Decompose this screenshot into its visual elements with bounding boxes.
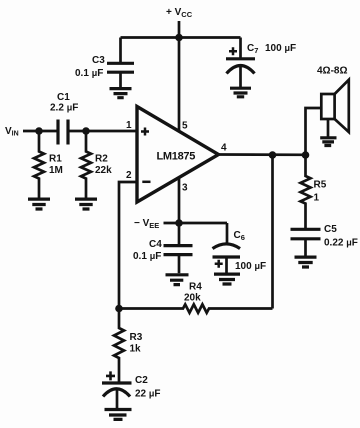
svg-text:R2: R2 [95, 154, 108, 165]
svg-text:5: 5 [182, 121, 188, 132]
svg-text:4Ω-8Ω: 4Ω-8Ω [317, 66, 348, 77]
svg-text:R1: R1 [49, 154, 62, 165]
svg-text:C4: C4 [149, 239, 162, 250]
svg-text:LM1875: LM1875 [157, 151, 196, 163]
svg-text:C3: C3 [92, 55, 105, 66]
svg-text:1: 1 [126, 120, 132, 131]
svg-text:3: 3 [182, 183, 188, 194]
svg-text:C1: C1 [57, 92, 70, 103]
svg-text:100 μF: 100 μF [235, 261, 266, 272]
svg-text:2: 2 [126, 170, 132, 181]
svg-text:22 μF: 22 μF [135, 389, 161, 400]
svg-text:0.1 μF: 0.1 μF [75, 68, 103, 79]
svg-text:C2: C2 [135, 375, 148, 386]
svg-text:22k: 22k [95, 165, 112, 176]
svg-text:C5: C5 [324, 224, 337, 235]
svg-text:0.1 μF: 0.1 μF [133, 251, 161, 262]
svg-text:0.22 μF: 0.22 μF [324, 238, 358, 249]
svg-text:2.2 μF: 2.2 μF [50, 103, 78, 114]
svg-text:4: 4 [221, 143, 227, 154]
svg-text:R5: R5 [314, 180, 327, 191]
svg-text:20k: 20k [184, 293, 201, 304]
svg-text:100 μF: 100 μF [265, 43, 296, 54]
svg-text:R4: R4 [189, 282, 202, 293]
svg-text:1: 1 [314, 193, 320, 204]
svg-text:R3: R3 [130, 332, 143, 343]
svg-text:1M: 1M [49, 165, 63, 176]
svg-text:1k: 1k [130, 344, 142, 355]
